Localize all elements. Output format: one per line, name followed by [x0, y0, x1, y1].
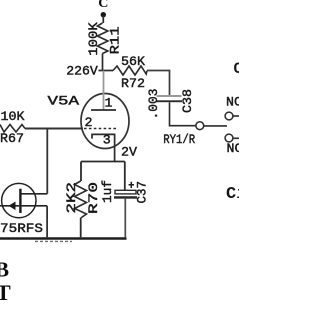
svg-text:2V: 2V — [121, 144, 137, 159]
svg-text:O: O — [234, 60, 240, 78]
svg-text:NC: NC — [226, 94, 239, 109]
capacitor C38 top plate — [157, 95, 182, 97]
svg-text:Ci: Ci — [226, 185, 239, 204]
svg-text:1uf: 1uf — [100, 180, 115, 203]
relay contact NC upper circle — [225, 112, 233, 120]
wire R72 to C38 corner — [147, 71, 170, 96]
svg-text:V5A: V5A — [48, 93, 80, 108]
cathode network top wire — [81, 161, 125, 163]
wire Q1 emitter left with arrow — [0, 205, 19, 207]
svg-text:2: 2 — [85, 115, 93, 130]
svg-text:R67: R67 — [0, 131, 24, 146]
resistor R67 zigzag — [0, 125, 25, 133]
wire node C to R11 — [102, 16, 104, 23]
wire C38 to relay terminal — [170, 102, 196, 126]
wire grid from R67 — [25, 128, 83, 130]
svg-text:3: 3 — [103, 133, 111, 148]
ground bus dashes — [35, 240, 72, 242]
svg-text:R72: R72 — [121, 76, 145, 91]
wire emitter branch down — [46, 206, 48, 238]
svg-text:1: 1 — [105, 96, 113, 111]
wire 226V node horizontal — [99, 70, 114, 72]
relay terminal RY1/R circle — [196, 122, 204, 130]
wire lower contact lead — [233, 137, 239, 139]
tube grid dashed — [84, 128, 116, 130]
wire grid branch down to Q1 — [46, 129, 48, 194]
wire Q1 emitter right — [20, 205, 47, 207]
svg-text:NC: NC — [227, 141, 240, 156]
tube V5A envelope — [81, 94, 129, 149]
svg-text:.003: .003 — [146, 88, 161, 119]
capacitor C38 bottom plate — [157, 100, 183, 102]
resistor R70 zigzag — [75, 181, 87, 218]
svg-text:C: C — [98, 0, 108, 11]
capacitor C37 top plate hollow — [115, 190, 136, 194]
svg-text:R70: R70 — [86, 182, 101, 214]
wire relay common — [204, 125, 227, 127]
resistor R11 zigzag — [97, 23, 108, 54]
relay contact NC lower circle — [225, 134, 233, 142]
wire R70 bottom lead — [80, 218, 82, 237]
svg-text:B: B — [0, 257, 9, 281]
tube cathode — [92, 134, 115, 161]
transistor Q1 envelope — [2, 183, 36, 217]
wire Q1 collector lead — [22, 193, 48, 195]
wire plate lead — [103, 71, 105, 111]
wire upper contact lead — [233, 115, 239, 117]
tube plate bar — [91, 109, 116, 111]
svg-text:2K2: 2K2 — [64, 182, 79, 214]
wire R11 bottom to plate junction — [102, 54, 104, 71]
svg-text:C38: C38 — [180, 89, 195, 113]
svg-text:75RFS: 75RFS — [0, 221, 43, 236]
resistor R72 zigzag — [113, 66, 147, 75]
capacitor C37 bottom plate — [114, 196, 137, 199]
Q1 emitter arrowhead — [9, 202, 16, 211]
wire left branch down — [80, 162, 82, 182]
transistor Q1 base bar — [19, 189, 21, 213]
svg-text:56K: 56K — [121, 54, 145, 69]
node C junction dot — [101, 12, 106, 17]
svg-text:226V: 226V — [66, 64, 98, 79]
svg-text:R11: R11 — [108, 26, 123, 54]
wire right branch down to C37 — [124, 162, 126, 191]
svg-text:T: T — [0, 280, 11, 305]
capacitor C37 plus sign — [129, 182, 134, 188]
ground bus wire — [0, 237, 127, 240]
wire C37 bottom lead — [124, 199, 126, 238]
svg-text:10K: 10K — [1, 109, 25, 124]
svg-text:100K: 100K — [86, 22, 101, 56]
svg-text:C37: C37 — [135, 181, 150, 204]
svg-text:RY1/R: RY1/R — [163, 132, 195, 147]
